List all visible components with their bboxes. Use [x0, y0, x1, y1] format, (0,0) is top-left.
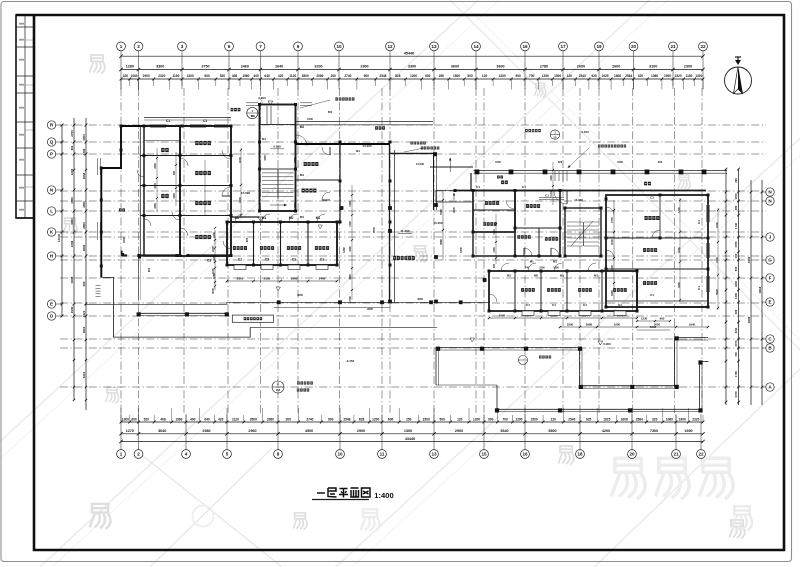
svg-text:1270: 1270	[126, 429, 134, 433]
svg-text:2320: 2320	[675, 74, 682, 78]
svg-text:2600: 2600	[82, 222, 86, 229]
svg-text:G: G	[768, 258, 772, 263]
right wing entry block	[473, 191, 515, 233]
right garage dim chain	[489, 317, 637, 319]
svg-text:2306: 2306	[70, 240, 74, 247]
left wing roof double line	[144, 117, 231, 119]
grid bubble 16	[521, 42, 530, 51]
svg-text:4200: 4200	[602, 429, 610, 433]
svg-text:2300: 2300	[452, 207, 456, 213]
garage row window sills right	[522, 311, 534, 316]
watermark X bottom-left	[150, 448, 272, 567]
svg-text:45440: 45440	[404, 52, 415, 56]
grid bubble L	[47, 207, 55, 215]
svg-text:1500: 1500	[495, 160, 501, 164]
svg-text:3000: 3000	[211, 288, 215, 294]
interior tick marks scatter	[214, 227, 216, 229]
svg-text:11.600: 11.600	[400, 229, 410, 233]
svg-text:1: 1	[120, 452, 123, 457]
entry door arc at stair	[296, 135, 307, 146]
detail circle canopy right	[550, 130, 559, 139]
svg-text:2500: 2500	[567, 322, 574, 326]
svg-text:2080: 2080	[316, 74, 323, 78]
svg-text:3300: 3300	[408, 65, 416, 69]
leader text canopy right	[598, 145, 601, 148]
svg-text:F: F	[769, 276, 772, 281]
svg-text:3100: 3100	[649, 65, 657, 69]
grid bubble 1	[117, 450, 126, 459]
svg-text:2780: 2780	[734, 241, 738, 247]
entry block lower cell	[472, 232, 474, 256]
corridor wall block A to tower	[231, 216, 260, 218]
north compass	[725, 67, 752, 94]
svg-text:P: P	[50, 152, 53, 157]
canopy leader line left	[261, 100, 263, 105]
svg-text:1000: 1000	[154, 183, 157, 189]
svg-text:900: 900	[147, 267, 151, 272]
svg-text:22: 22	[700, 44, 706, 49]
vertical grid dash-dot lines	[120, 88, 122, 414]
svg-text:4500: 4500	[305, 429, 313, 433]
grid bubble Q	[47, 138, 55, 146]
svg-text:20: 20	[631, 44, 637, 49]
svg-text:2600: 2600	[577, 65, 585, 69]
svg-text:M0: M0	[534, 274, 538, 278]
svg-text:1500: 1500	[349, 274, 352, 280]
title strip outline	[16, 15, 34, 218]
svg-text:600: 600	[204, 74, 210, 78]
columns on building grid	[120, 125, 123, 128]
corridor label blob	[501, 181, 504, 185]
grid bubble 12	[386, 42, 395, 51]
svg-text:500: 500	[467, 74, 473, 78]
svg-text:C1: C1	[238, 258, 242, 262]
svg-text:300: 300	[493, 263, 496, 268]
svg-text:1200: 1200	[715, 222, 719, 228]
drawing title faux glyphs	[317, 488, 370, 498]
chain x352	[351, 185, 353, 300]
svg-text:4430: 4430	[747, 256, 751, 263]
svg-text:12: 12	[387, 44, 393, 49]
garage row dim chain	[227, 280, 337, 282]
svg-text:200: 200	[331, 74, 337, 78]
exterior steps SW	[96, 285, 101, 287]
svg-text:J: J	[769, 235, 772, 240]
misc inner dim chain x215	[214, 230, 216, 290]
svg-text:600: 600	[245, 237, 249, 242]
bottom dim small line	[121, 421, 703, 423]
stair entry arc	[554, 191, 567, 204]
svg-text:1000: 1000	[264, 155, 267, 161]
svg-text:15.000: 15.000	[433, 221, 443, 225]
left walkway edge line	[85, 303, 227, 305]
svg-text:1200: 1200	[610, 265, 614, 271]
svg-text:1290: 1290	[515, 417, 522, 421]
svg-text:1120: 1120	[289, 74, 296, 78]
right bottom garage row	[489, 271, 637, 311]
bottom grid bubbles	[120, 414, 122, 450]
svg-text:10: 10	[337, 452, 343, 457]
grid bubble R	[47, 121, 55, 129]
svg-text:2400: 2400	[154, 163, 157, 169]
svg-text:1: 1	[120, 44, 123, 49]
right wing entry porch	[436, 190, 473, 202]
svg-text:3300: 3300	[349, 246, 352, 252]
svg-text:1080: 1080	[154, 203, 157, 209]
grid bubble A	[766, 383, 774, 391]
svg-text:1230: 1230	[641, 317, 648, 321]
svg-text:2584: 2584	[636, 417, 643, 421]
svg-text:1900: 1900	[679, 417, 686, 421]
svg-text:1900: 1900	[664, 74, 671, 78]
svg-text:408: 408	[160, 417, 166, 421]
svg-text:2500: 2500	[372, 227, 376, 233]
svg-text:900: 900	[515, 74, 521, 78]
grid bubble N	[766, 197, 774, 205]
detail circle A	[272, 381, 284, 393]
svg-text:2073: 2073	[734, 340, 738, 346]
svg-text:M1: M1	[560, 274, 564, 278]
svg-text:C1: C1	[203, 119, 207, 123]
svg-text:200: 200	[286, 417, 292, 421]
svg-text:420: 420	[218, 417, 224, 421]
svg-text:1360: 1360	[342, 247, 346, 253]
corridor column blobs	[475, 170, 480, 175]
svg-text:2540: 2540	[579, 74, 586, 78]
svg-text:M2: M2	[300, 125, 305, 129]
room labels left block	[195, 141, 198, 145]
svg-text:2700: 2700	[349, 296, 352, 302]
svg-text:1800: 1800	[291, 276, 298, 280]
svg-text:2300: 2300	[684, 65, 692, 69]
central wall columns	[389, 301, 392, 304]
grid bubble 14	[472, 42, 481, 51]
svg-text:3300: 3300	[156, 65, 164, 69]
svg-text:M1: M1	[300, 215, 304, 219]
top dim small line	[121, 78, 703, 80]
left wing window marks	[97, 158, 99, 175]
svg-text:1500: 1500	[554, 74, 561, 78]
watermark glyphs	[89, 55, 104, 74]
interior dim vertical guide lines	[240, 148, 242, 218]
svg-text:4500: 4500	[417, 297, 423, 301]
svg-text:M1: M1	[356, 149, 360, 153]
right wing east wall bottom	[637, 306, 708, 308]
svg-text:1950: 1950	[677, 282, 681, 288]
right grid bubbles	[762, 191, 766, 193]
window double marks left block top	[246, 102, 258, 104]
svg-text:2460: 2460	[241, 65, 249, 69]
svg-text:1200: 1200	[499, 74, 506, 78]
grid bubble C	[766, 335, 774, 343]
svg-text:3200: 3200	[314, 65, 322, 69]
svg-text:1300: 1300	[122, 417, 129, 421]
grid bubble 10	[335, 42, 344, 51]
grid bubble H	[47, 252, 55, 260]
svg-text:1780: 1780	[734, 371, 738, 377]
svg-text:380: 380	[734, 205, 738, 210]
bottom dim mid line	[121, 433, 703, 435]
svg-text:1000: 1000	[614, 322, 621, 326]
inner dim left chain x205 vertical	[204, 160, 206, 215]
svg-text:2980: 2980	[499, 313, 506, 317]
svg-text:1500: 1500	[531, 417, 538, 421]
svg-text:2980: 2980	[202, 429, 210, 433]
svg-text:730: 730	[734, 352, 738, 357]
svg-text:5: 5	[226, 452, 229, 457]
svg-text:2900: 2900	[360, 65, 368, 69]
svg-text:1940: 1940	[689, 322, 696, 326]
svg-text:11: 11	[380, 452, 385, 457]
svg-text:3.150: 3.150	[581, 130, 589, 134]
leader texts top center	[300, 100, 330, 108]
svg-text:1925: 1925	[603, 417, 610, 421]
svg-text:600: 600	[388, 417, 394, 421]
svg-text:M1: M1	[553, 260, 557, 264]
svg-text:1620: 1620	[550, 175, 553, 181]
svg-text:500: 500	[82, 281, 86, 286]
svg-text:3640: 3640	[500, 429, 508, 433]
svg-text:320: 320	[123, 74, 129, 78]
svg-text:1500: 1500	[307, 117, 313, 121]
svg-text:600: 600	[131, 417, 137, 421]
svg-text:9: 9	[297, 44, 300, 49]
svg-text:1800: 1800	[293, 157, 297, 163]
svg-text:17: 17	[560, 44, 566, 49]
svg-text:43440: 43440	[405, 437, 416, 441]
svg-text:14040: 14040	[57, 233, 61, 242]
small marks in title strip	[19, 23, 24, 25]
stair canopy line	[260, 124, 296, 126]
right garage second dim chain	[560, 326, 708, 328]
svg-text:2900: 2900	[455, 429, 463, 433]
walkway column blobs	[277, 300, 281, 304]
svg-text:1100: 1100	[493, 229, 496, 235]
svg-text:1500: 1500	[70, 306, 74, 313]
grid bubble 9	[294, 42, 303, 51]
svg-text:2986: 2986	[586, 322, 593, 326]
svg-text:2780: 2780	[540, 65, 548, 69]
east wall window marks	[706, 205, 708, 222]
svg-text:2400: 2400	[122, 237, 126, 243]
svg-text:120: 120	[482, 74, 488, 78]
svg-text:3221: 3221	[82, 310, 86, 317]
svg-text:1003: 1003	[82, 134, 86, 141]
svg-text:500: 500	[440, 417, 446, 421]
svg-text:520: 520	[220, 74, 226, 78]
svg-text:2730: 2730	[734, 391, 738, 397]
grid bubble J	[766, 233, 774, 241]
svg-text:3008: 3008	[70, 276, 74, 283]
svg-text:15.090: 15.090	[241, 191, 251, 195]
corridor top thin double line	[474, 170, 728, 172]
grid bubble D	[47, 312, 55, 320]
misc inner dim chain x443	[442, 190, 444, 260]
svg-text:1200: 1200	[173, 193, 176, 199]
svg-text:1003: 1003	[70, 218, 74, 225]
svg-text:16: 16	[522, 452, 528, 457]
svg-text:520: 520	[144, 417, 150, 421]
svg-text:C1: C1	[697, 220, 701, 224]
svg-text:2700: 2700	[70, 130, 74, 137]
svg-text:1060: 1060	[131, 74, 138, 78]
top grid bubbles	[120, 51, 122, 89]
svg-text:900: 900	[660, 317, 665, 321]
svg-text:C3: C3	[265, 258, 269, 262]
svg-text:C1: C1	[552, 303, 556, 307]
svg-text:1000: 1000	[610, 239, 614, 245]
stair treads left	[262, 168, 278, 170]
right wing vertical dim chain x553	[552, 162, 554, 205]
left column rooms	[144, 126, 180, 256]
svg-text:2800: 2800	[237, 276, 244, 280]
svg-text:2540: 2540	[568, 417, 575, 421]
svg-text:1060: 1060	[666, 417, 673, 421]
svg-text:M1: M1	[594, 274, 598, 278]
svg-text:120: 120	[457, 417, 463, 421]
svg-text:1060: 1060	[651, 74, 658, 78]
svg-text:1000: 1000	[539, 267, 545, 270]
left wing room block A	[180, 126, 231, 256]
courtyard ramp arrow	[449, 158, 451, 172]
grid bubble 1	[117, 42, 126, 51]
svg-text:3500: 3500	[302, 74, 309, 78]
corridor step wall at court	[390, 152, 436, 154]
inner dim chain x157	[156, 148, 158, 212]
svg-text:150: 150	[734, 253, 738, 258]
left block doors	[222, 150, 231, 159]
svg-text:3600: 3600	[496, 65, 504, 69]
svg-text:1608: 1608	[621, 417, 628, 421]
svg-text:1283: 1283	[70, 168, 74, 175]
grid bubble 22	[699, 42, 708, 51]
svg-text:C1: C1	[166, 119, 170, 123]
more door arcs	[180, 228, 188, 236]
grid bubble 16	[521, 450, 530, 459]
svg-text:1000: 1000	[677, 247, 681, 253]
watermark diagonal lines	[0, 0, 500, 460]
svg-text:E: E	[50, 302, 53, 307]
svg-text:1960: 1960	[242, 74, 249, 78]
svg-text:M1: M1	[300, 173, 304, 177]
svg-text:1700: 1700	[610, 217, 614, 223]
svg-text:520: 520	[558, 160, 563, 164]
right wing corridor wall	[455, 190, 706, 192]
svg-text:1080: 1080	[212, 273, 216, 279]
svg-text:21: 21	[673, 452, 679, 457]
svg-text:L: L	[50, 209, 53, 214]
svg-text:2740: 2740	[306, 417, 313, 421]
svg-text:828: 828	[395, 74, 401, 78]
grid bubble E	[766, 298, 774, 306]
svg-text:16: 16	[522, 44, 528, 49]
svg-text:5900: 5900	[715, 289, 719, 295]
svg-text:400: 400	[253, 74, 259, 78]
svg-text:13: 13	[431, 452, 437, 457]
svg-text:22: 22	[698, 452, 704, 457]
right terrace colonnade	[436, 347, 580, 349]
svg-text:1200: 1200	[372, 417, 379, 421]
right wing east room column	[606, 195, 708, 307]
svg-text:1420: 1420	[493, 247, 496, 253]
svg-text:2: 2	[137, 452, 140, 457]
svg-text:C1: C1	[545, 194, 549, 198]
grid bubble 21	[672, 450, 681, 459]
svg-text:450: 450	[276, 388, 281, 392]
svg-text:1200: 1200	[238, 197, 242, 203]
svg-text:400: 400	[190, 417, 196, 421]
corridor label blob	[497, 176, 500, 179]
grid bubble 20	[629, 42, 638, 51]
svg-text:901: 901	[70, 145, 74, 150]
right terrace columns	[436, 347, 440, 351]
svg-text:900: 900	[488, 417, 494, 421]
grid bubble 10	[336, 450, 345, 459]
svg-text:C1: C1	[697, 286, 701, 290]
svg-text:389: 389	[734, 309, 738, 314]
right wing mid rooms	[515, 191, 560, 257]
svg-text:1960: 1960	[175, 417, 182, 421]
svg-text:C1: C1	[476, 185, 480, 189]
svg-text:1170: 1170	[550, 191, 553, 197]
svg-text:M1: M1	[530, 260, 534, 264]
svg-text:1300: 1300	[459, 247, 463, 253]
svg-text:-0.150: -0.150	[346, 359, 355, 363]
grid bubble 5	[223, 450, 232, 459]
svg-text:600: 600	[425, 74, 431, 78]
grid bubble 18	[576, 450, 585, 459]
detail circle B	[519, 356, 528, 365]
small level triangles scatter	[318, 225, 322, 229]
bottom dim total line	[121, 441, 703, 443]
svg-text:120: 120	[567, 74, 573, 78]
svg-text:828: 828	[359, 417, 365, 421]
svg-text:2080: 2080	[267, 417, 274, 421]
grid bubble 17	[559, 42, 568, 51]
svg-text:2306: 2306	[82, 148, 86, 155]
title strip middle vertical	[24, 15, 26, 218]
svg-text:1200: 1200	[410, 74, 417, 78]
svg-text:1690: 1690	[684, 429, 692, 433]
svg-text:3.900: 3.900	[258, 96, 266, 100]
svg-text:3008: 3008	[82, 172, 86, 179]
svg-text:1925: 1925	[601, 74, 608, 78]
svg-text:3640: 3640	[158, 429, 166, 433]
courtyard column blobs	[388, 206, 392, 210]
svg-text:1300: 1300	[715, 257, 719, 263]
large faint logo bottom-right	[611, 458, 645, 499]
svg-text:700: 700	[502, 417, 508, 421]
grid bubble 21	[669, 42, 678, 51]
grid bubble N	[766, 188, 774, 196]
inner dim chain x176	[175, 152, 177, 206]
interior dim chain x496	[495, 214, 497, 264]
svg-text:1000: 1000	[238, 157, 242, 163]
top dim total line	[121, 55, 703, 57]
svg-text:C1: C1	[650, 196, 654, 200]
svg-text:M1: M1	[507, 274, 511, 278]
grid bubble E	[47, 300, 55, 308]
svg-text:1280: 1280	[126, 65, 134, 69]
svg-text:1500: 1500	[423, 417, 430, 421]
railing below left column	[138, 256, 140, 300]
svg-text:2: 2	[137, 44, 140, 49]
central vertical double wall	[389, 142, 391, 303]
central garage row (left)	[227, 222, 337, 265]
right dim lines	[725, 169, 727, 405]
svg-text:8: 8	[277, 452, 280, 457]
grid bubble 2	[134, 42, 143, 51]
